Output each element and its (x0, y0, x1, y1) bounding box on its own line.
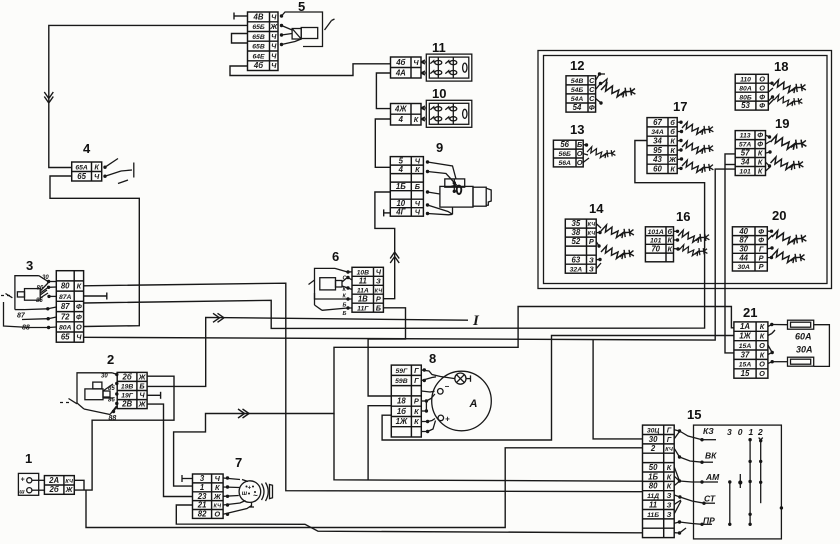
node label block 16 (676, 209, 690, 224)
svg-text:Г: Г (759, 245, 764, 254)
svg-text:К: К (668, 244, 673, 253)
svg-text:3: 3 (727, 427, 732, 437)
warning lamps of block 14 (596, 224, 634, 269)
svg-text:54Б: 54Б (571, 87, 584, 94)
svg-text:80А: 80А (59, 325, 72, 332)
warning lamp of block 13 (583, 143, 615, 162)
wire net 65: switch 4 to relay 3 (50, 176, 139, 327)
svg-text:52: 52 (572, 237, 581, 246)
connector X19 lamps (735, 131, 765, 176)
svg-text:К: К (414, 407, 419, 416)
svg-text:13: 13 (570, 122, 584, 137)
svg-text:30: 30 (649, 435, 658, 444)
svg-text:З: З (667, 491, 672, 500)
svg-text:11: 11 (432, 40, 446, 55)
connector X14 lamps (565, 219, 596, 273)
node label block 15 (687, 407, 701, 422)
node label block 11 (432, 40, 446, 55)
svg-text:34: 34 (741, 158, 750, 167)
node label block 13 (570, 122, 584, 137)
svg-text:15: 15 (741, 369, 750, 378)
svg-text:Ч: Ч (413, 58, 419, 67)
svg-text:15А: 15А (739, 362, 752, 369)
svg-text:17: 17 (673, 99, 687, 114)
wire net 57: lamp block 19 to fuse block 21 (725, 154, 735, 353)
svg-text:Р: Р (414, 397, 419, 406)
svg-text:АМ: АМ (705, 472, 720, 482)
svg-text:2: 2 (107, 352, 114, 367)
warning lamps of block 16 (674, 230, 710, 257)
wire net 87: relay 3 to lamp block 17 (84, 141, 705, 329)
wire net 2В: relay 2 to alternator plug 7 (147, 404, 192, 496)
svg-text:9: 9 (436, 140, 443, 155)
svg-text:К: К (758, 149, 763, 158)
svg-text:Ф: Ф (757, 131, 763, 140)
svg-text:1Ж: 1Ж (739, 332, 751, 341)
svg-text:К: К (667, 472, 672, 481)
svg-text:87: 87 (739, 236, 748, 245)
svg-text:б: б (670, 127, 675, 136)
svg-text:34А: 34А (651, 129, 664, 136)
ignition switch 15 lead fans (674, 429, 704, 534)
svg-text:2: 2 (757, 427, 763, 437)
svg-text:38: 38 (572, 228, 581, 237)
fuse F1 60A (768, 320, 814, 341)
wire net 80: relay 3 to ignition switch 15 (84, 283, 643, 492)
connector X4 switch (72, 162, 102, 181)
svg-text:К: К (670, 164, 675, 173)
svg-text:23: 23 (197, 492, 207, 501)
node label block 4 (83, 141, 91, 156)
svg-text:С: С (589, 85, 595, 94)
svg-text:8: 8 (429, 351, 436, 366)
svg-text:21: 21 (197, 501, 207, 510)
connector X12 lamps (566, 76, 596, 112)
svg-text:Г: Г (667, 435, 672, 444)
svg-text:1А: 1А (740, 322, 750, 331)
svg-text:К: К (670, 146, 675, 155)
svg-text:К: К (668, 236, 673, 245)
connector X1 battery (44, 476, 74, 495)
svg-text:87А: 87А (59, 294, 72, 301)
svg-text:0: 0 (738, 427, 743, 437)
svg-text:Б: Б (376, 303, 381, 312)
node label block 12 (570, 58, 584, 73)
svg-text:б: б (668, 227, 673, 236)
svg-text:4Г: 4Г (395, 208, 406, 217)
node label block 21 (743, 305, 757, 320)
switch SA4 stop lamp (103, 159, 134, 184)
svg-text:+: + (21, 477, 25, 484)
node label block 10 (432, 86, 446, 101)
svg-text:1: 1 (200, 483, 204, 492)
svg-text:64Е: 64Е (252, 54, 265, 61)
svg-text:1: 1 (25, 451, 32, 466)
svg-text:56А: 56А (558, 160, 571, 167)
svg-text:Ф: Ф (76, 312, 82, 321)
wire stub block 2 row 19Г with end tick (147, 392, 161, 399)
connector X3 relay (56, 271, 83, 343)
svg-text:К: К (670, 137, 675, 146)
ammeter and charge lamp 8 (421, 368, 491, 433)
svg-text:Ч: Ч (94, 172, 100, 181)
svg-text:10В: 10В (357, 269, 370, 276)
svg-text:Ф: Ф (759, 101, 765, 110)
svg-text:95: 95 (653, 146, 662, 155)
svg-text:60А: 60А (795, 332, 812, 342)
svg-text:Ж: Ж (213, 492, 222, 501)
svg-text:КЧ: КЧ (65, 479, 73, 485)
svg-text:67: 67 (653, 118, 662, 127)
svg-text:Р: Р (376, 294, 381, 303)
svg-text:А: А (469, 398, 478, 410)
svg-text:87: 87 (17, 313, 26, 320)
lamp and switch of block 5 (280, 12, 335, 47)
svg-text:Б: Б (343, 311, 347, 317)
svg-text:Б: Б (139, 382, 144, 391)
node label block 14 (589, 201, 604, 216)
svg-text:43: 43 (652, 155, 662, 164)
node label block 20 (772, 208, 786, 223)
connector X2 relay (117, 372, 147, 408)
wire net 1Ж: ammeter 8 to fuse block 21 (382, 336, 734, 441)
svg-text:30А: 30А (796, 345, 813, 355)
wire net 21: alternator 7 to ignition switch 15 (176, 505, 642, 533)
node label block 6 (332, 249, 339, 264)
svg-text:6: 6 (332, 249, 339, 264)
svg-text:О: О (759, 74, 765, 83)
svg-text:86: 86 (37, 286, 44, 292)
wire net 65-101: relay 3 to lamp block 19 (84, 169, 736, 340)
svg-text:Ч: Ч (271, 61, 277, 70)
node label block 19 (775, 116, 789, 131)
svg-text:Ч: Ч (271, 52, 277, 61)
light switch SA9 (426, 160, 491, 215)
svg-text:70: 70 (651, 244, 660, 253)
svg-text:К: К (667, 482, 672, 491)
svg-text:О: О (759, 360, 765, 369)
svg-text:К: К (415, 165, 420, 174)
svg-text:Р: Р (759, 253, 764, 262)
battery GB1 (18, 473, 44, 495)
svg-text:I: I (472, 313, 480, 329)
svg-text:12: 12 (570, 58, 584, 73)
svg-text:86: 86 (108, 398, 115, 404)
svg-text:32А: 32А (570, 266, 583, 273)
svg-text:Б: Б (415, 182, 420, 191)
svg-text:1В: 1В (358, 294, 368, 303)
svg-text:К: К (667, 463, 672, 472)
svg-text:Б: Б (577, 140, 582, 149)
svg-text:КЧ: КЧ (665, 447, 673, 453)
svg-text:80: 80 (61, 282, 70, 291)
fuse F2 30A (768, 325, 830, 367)
svg-text:4б: 4б (253, 61, 263, 70)
svg-text:К: К (414, 417, 419, 426)
instrument panel enclosure (538, 51, 832, 289)
svg-text:11: 11 (359, 276, 367, 285)
warning lamps of block 19 (766, 135, 807, 171)
connector X21 fuse block (734, 322, 768, 378)
svg-text:2: 2 (650, 444, 656, 453)
svg-text:65А: 65А (75, 164, 88, 171)
wire net 4: headlamp 10 to light switch 9 (375, 119, 390, 167)
svg-text:Б: Б (343, 303, 347, 309)
wire net 1Б: light switch 9 to relay 6 (375, 192, 399, 299)
svg-text:О: О (759, 369, 765, 378)
svg-text:30А: 30А (737, 264, 750, 271)
svg-text:3: 3 (200, 474, 205, 483)
svg-text:63: 63 (572, 255, 581, 264)
svg-text:7: 7 (235, 455, 242, 470)
svg-text:21: 21 (743, 305, 757, 320)
svg-text:15: 15 (687, 407, 701, 422)
svg-text:3: 3 (26, 258, 33, 273)
node label block 17 (673, 99, 687, 114)
svg-text:Ж: Ж (269, 22, 278, 31)
connector X13 lamps (553, 140, 583, 167)
svg-text:4Ж: 4Ж (394, 105, 407, 114)
svg-text:4: 4 (398, 165, 404, 174)
svg-text:65: 65 (61, 333, 70, 342)
svg-text:18: 18 (397, 397, 406, 406)
headlamp lamp unit 10 (421, 100, 472, 127)
svg-text:Ф: Ф (758, 236, 764, 245)
svg-text:19: 19 (775, 116, 789, 131)
svg-text:19Г: 19Г (121, 393, 134, 400)
svg-text:88: 88 (22, 325, 30, 332)
svg-text:К: К (414, 115, 419, 124)
wire net 65Б: block 5 to stop-lamp switch 4 (44, 25, 247, 167)
svg-text:С: С (589, 94, 595, 103)
wire branch to ignition switch 15 row 30 (593, 340, 642, 439)
svg-text:85: 85 (108, 386, 115, 392)
connector X20 lamps (732, 227, 767, 271)
connector X6 relay (352, 267, 383, 312)
svg-text:О: О (214, 510, 220, 519)
svg-text:113: 113 (740, 133, 751, 140)
warning lamps of block 17 (677, 121, 713, 173)
relay K6 (309, 268, 353, 317)
relay K2 (60, 373, 119, 422)
svg-text:37: 37 (741, 350, 750, 359)
svg-text:2А: 2А (48, 476, 59, 485)
wire stub block 19 row 34 (725, 164, 735, 166)
svg-text:Ч: Ч (271, 42, 277, 51)
svg-text:Г: Г (667, 425, 672, 434)
node label block 8 (429, 351, 436, 366)
wire net 1б: ammeter unit 8 to net 1Б (368, 406, 391, 480)
svg-text:Ж: Ж (138, 400, 147, 409)
svg-text:15А: 15А (739, 343, 752, 350)
svg-text:2В: 2В (121, 400, 132, 409)
wire net 2А: battery junction (74, 480, 84, 490)
svg-text:З: З (589, 255, 594, 264)
connector X7 alternator (193, 474, 224, 519)
svg-text:4А: 4А (395, 68, 406, 77)
svg-text:Ф: Ф (757, 140, 763, 149)
svg-text:О: О (577, 158, 583, 167)
svg-text:Р: Р (759, 262, 764, 271)
svg-text:54В: 54В (571, 78, 584, 85)
ignition switch SA15 contact box (694, 425, 784, 539)
svg-text:СТ: СТ (704, 494, 716, 504)
svg-text:О: О (577, 149, 583, 158)
node label block 3 (26, 258, 33, 273)
svg-text:1: 1 (749, 427, 754, 437)
svg-text:80А: 80А (739, 85, 752, 92)
wire net 4б: block 5 to headlamp 11 (230, 64, 391, 76)
svg-text:4В: 4В (253, 13, 264, 22)
svg-text:Ч: Ч (139, 391, 145, 400)
svg-text:Ф: Ф (76, 302, 82, 311)
node label block 18 (774, 59, 788, 74)
svg-text:14: 14 (589, 201, 604, 216)
svg-text:57: 57 (741, 149, 750, 158)
svg-text:53: 53 (741, 101, 750, 110)
node label block 5 (298, 0, 305, 14)
svg-text:82: 82 (198, 510, 207, 519)
svg-text:КЗ: КЗ (703, 426, 714, 436)
svg-text:Ф: Ф (758, 227, 764, 236)
svg-text:К: К (760, 332, 765, 341)
svg-text:О: О (759, 341, 765, 350)
svg-text:2б: 2б (122, 373, 132, 382)
svg-text:87: 87 (61, 302, 70, 311)
svg-text:85: 85 (36, 298, 43, 304)
svg-text:Ж: Ж (65, 485, 74, 494)
svg-text:Ч: Ч (271, 13, 277, 22)
svg-text:20: 20 (772, 208, 786, 223)
wire stub block 5 row 4В with end tick (234, 13, 248, 20)
svg-text:Ф: Ф (759, 92, 765, 101)
connector X8 ammeter (391, 365, 421, 437)
svg-text:30: 30 (42, 275, 49, 281)
svg-text:54А: 54А (571, 96, 584, 103)
svg-text:10: 10 (432, 86, 446, 101)
svg-text:О: О (76, 323, 82, 332)
svg-text:К: К (760, 322, 765, 331)
svg-text:59В: 59В (395, 378, 408, 385)
svg-text:ш: ш (19, 490, 25, 496)
svg-text:11Г: 11Г (357, 305, 369, 312)
svg-text:35: 35 (572, 219, 581, 228)
svg-text:1б: 1б (397, 407, 406, 416)
wire I: relay 2 to junction I (147, 313, 468, 386)
svg-text:КЧ: КЧ (588, 222, 596, 228)
svg-text:80: 80 (649, 482, 658, 491)
svg-text:2б: 2б (49, 485, 59, 494)
svg-text:60: 60 (653, 164, 662, 173)
svg-text:16: 16 (676, 209, 690, 224)
wire stub block 3 row 87А with end tick (84, 293, 107, 300)
connector X11 headlamp (391, 57, 422, 78)
svg-text:56: 56 (560, 140, 569, 149)
svg-text:К: К (760, 350, 765, 359)
svg-text:С: С (589, 76, 595, 85)
connector X9 light switch (390, 157, 423, 217)
svg-text:1Б: 1Б (396, 182, 406, 191)
connector X16 lamps (645, 227, 673, 262)
svg-text:30Ц: 30Ц (647, 427, 660, 434)
wire net 11Г: relay 6 to ammeter unit 8 (368, 308, 405, 396)
svg-text:К: К (758, 158, 763, 167)
svg-text:б: б (670, 118, 675, 127)
svg-text:65В: 65В (252, 34, 265, 41)
svg-text:19В: 19В (121, 384, 134, 391)
svg-text:Ч: Ч (415, 208, 421, 217)
svg-text:Ж: Ж (138, 373, 147, 382)
svg-text:101А: 101А (648, 229, 664, 236)
svg-text:Ч: Ч (271, 32, 277, 41)
alternator plug G7 (182, 475, 273, 516)
svg-text:65Б: 65Б (252, 24, 265, 31)
svg-text:О: О (759, 83, 765, 92)
svg-text:Г: Г (414, 366, 419, 375)
node label block 9 (436, 140, 443, 155)
connector X5 lamp switch (248, 12, 279, 71)
svg-text:72: 72 (61, 312, 70, 321)
svg-text:44: 44 (738, 253, 748, 262)
connector X18 lamps (735, 74, 768, 110)
svg-text:59Г: 59Г (396, 368, 409, 375)
svg-text:34: 34 (653, 137, 662, 146)
svg-text:11Б: 11Б (647, 512, 659, 519)
svg-text:56Б: 56Б (559, 151, 572, 158)
svg-text:К: К (77, 282, 82, 291)
svg-text:50: 50 (649, 463, 658, 472)
svg-text:101: 101 (739, 169, 751, 176)
svg-text:4: 4 (398, 115, 404, 124)
warning lamps of block 18 (768, 80, 806, 106)
svg-text:К: К (215, 483, 220, 492)
svg-text:+: + (248, 486, 252, 492)
svg-text:1Б: 1Б (648, 472, 658, 481)
connector X15 ignition switch (643, 425, 675, 537)
svg-text:ш: ш (242, 491, 248, 497)
svg-text:88: 88 (109, 415, 117, 422)
svg-text:54: 54 (573, 103, 582, 112)
svg-text:65В: 65В (252, 44, 265, 51)
warning lamps of block 12 (596, 72, 636, 104)
node label block 2 (107, 352, 114, 367)
svg-text:Ф: Ф (589, 103, 595, 112)
svg-text:65: 65 (77, 172, 86, 181)
svg-text:Р: Р (589, 237, 594, 246)
wire net 2б: relay 2 to battery 1 (74, 376, 174, 490)
connector X10 headlamp (391, 104, 422, 126)
headlamp lamp unit 11 (421, 54, 472, 81)
wire loop block 5 rows 65В (232, 34, 248, 44)
svg-text:З: З (376, 276, 381, 285)
connector X17 lamps (647, 118, 677, 174)
svg-text:З: З (667, 510, 672, 519)
svg-text:57А: 57А (739, 142, 752, 149)
svg-text:Ч: Ч (376, 267, 382, 276)
svg-text:4б: 4б (395, 58, 405, 67)
svg-text:З: З (667, 500, 672, 509)
svg-text:30: 30 (739, 245, 748, 254)
svg-text:4: 4 (83, 141, 91, 156)
svg-text:18: 18 (774, 59, 788, 74)
svg-text:Ч: Ч (76, 333, 82, 342)
node label block 7 (235, 455, 242, 470)
svg-text:−: − (445, 382, 450, 391)
relay K3 (1, 275, 56, 332)
svg-text:Ж: Ж (668, 155, 677, 164)
svg-text:К: К (758, 167, 763, 176)
node I label (472, 313, 480, 329)
